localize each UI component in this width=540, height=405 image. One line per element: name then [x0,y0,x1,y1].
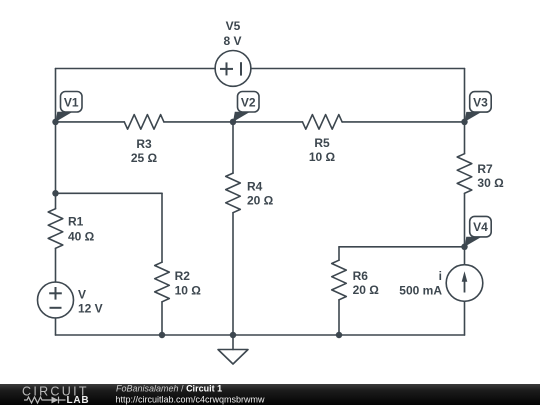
svg-text:R6: R6 [353,269,369,283]
voltage source V5 minus bar [240,62,242,75]
wire V4 horizontal to R6 [339,246,465,248]
wire current source to bottom [464,301,466,335]
wire V4 to current source [464,247,466,265]
svg-text:LAB: LAB [67,395,90,405]
wire top-left vertical [55,69,57,122]
current source i arrow head [462,271,468,282]
svg-text:V4: V4 [473,220,488,234]
node label V2 box [238,92,260,113]
wire V1 down to R1 [55,122,57,209]
svg-text:40 Ω: 40 Ω [68,230,95,244]
svg-text:8 V: 8 V [223,34,241,48]
node label V2 pointer [233,112,250,122]
node label V1 pointer [56,112,73,122]
current source i circle [446,265,483,302]
svg-text:20 Ω: 20 Ω [247,193,274,207]
resistor R6 zigzag [332,260,347,300]
wire R5 to V3 [342,121,464,123]
junction dot ground [230,332,237,339]
node label V4 pointer [465,237,482,247]
svg-text:R5: R5 [314,136,330,150]
node label V3 pointer [465,112,482,122]
wire R7 top segment [464,122,466,154]
junction dot V2 [230,119,237,126]
voltage source V circle [38,282,74,318]
voltage source V5 plus sign [49,62,241,308]
svg-text:V3: V3 [473,95,488,109]
svg-text:V: V [78,287,86,301]
wire R7 to V4 [464,193,466,247]
junction dot R6 bottom [336,332,343,339]
svg-text:12 V: 12 V [78,301,103,315]
current source i arrow shaft [464,278,466,293]
wire V1 to R3 [56,121,125,123]
wire V source to bottom [55,318,57,335]
wire top horizontal right of V5 [251,68,465,70]
svg-text:500 mA: 500 mA [399,283,442,297]
resistor R2 zigzag [155,262,170,302]
svg-text:R4: R4 [247,179,263,193]
node label V1 box [61,92,83,113]
voltage source V minus sign [50,307,62,309]
svg-text:R3: R3 [136,137,152,151]
wire R3 to R5 [164,121,303,123]
svg-text:R1: R1 [68,214,84,228]
resistor R4 zigzag [226,173,241,213]
svg-text:10 Ω: 10 Ω [309,150,336,164]
wire R1 to V source [55,248,57,282]
svg-text:FoBanisalameh / Circuit 1: FoBanisalameh / Circuit 1 [116,384,222,394]
svg-text:V2: V2 [241,95,256,109]
svg-text:20 Ω: 20 Ω [353,283,380,297]
svg-text:V1: V1 [64,95,79,109]
footer bar [0,384,540,405]
svg-text:i: i [439,269,442,283]
junction dot V1 [52,119,59,126]
svg-text:V5: V5 [226,19,241,33]
svg-text:25 Ω: 25 Ω [131,151,158,165]
junction dot R2 bottom [159,332,166,339]
node label V4 box [470,216,492,237]
svg-text:30 Ω: 30 Ω [477,176,504,190]
junction dot left branch [52,190,59,197]
resistor R3 zigzag [124,115,164,130]
svg-text:10 Ω: 10 Ω [175,283,202,297]
wire bottom horizontal [56,334,465,336]
resistor R5 zigzag [303,115,343,130]
wire R4 to bottom [232,213,234,335]
resistor R7 zigzag [457,154,472,194]
svg-text:R7: R7 [477,162,493,176]
wire top-right vertical [464,69,466,122]
footer logo resistor zigzag [24,397,52,403]
voltage source V plus sign [49,292,62,294]
wire R2 to bottom [161,302,163,335]
voltage source V5 circle [215,51,251,87]
wire R6 to bottom [338,300,340,335]
wire top horizontal left of V5 [56,68,216,70]
resistor R1 zigzag [48,209,63,249]
junction dot V3 [461,119,468,126]
svg-text:R2: R2 [175,269,191,283]
wire R2 branch vertical top [161,193,163,262]
ground triangle [218,350,248,365]
footer logo diode [52,397,59,404]
svg-text:http://circuitlab.com/c4crwqms: http://circuitlab.com/c4crwqmsbrwmw [116,395,266,405]
wire R6 branch vertical top [338,247,340,260]
wire V2 down to R4 [232,122,234,173]
ground stem [232,335,234,350]
wire branch to R2 horizontal [56,192,163,194]
node label V3 box [470,92,492,113]
junction dot V4 [461,244,468,251]
